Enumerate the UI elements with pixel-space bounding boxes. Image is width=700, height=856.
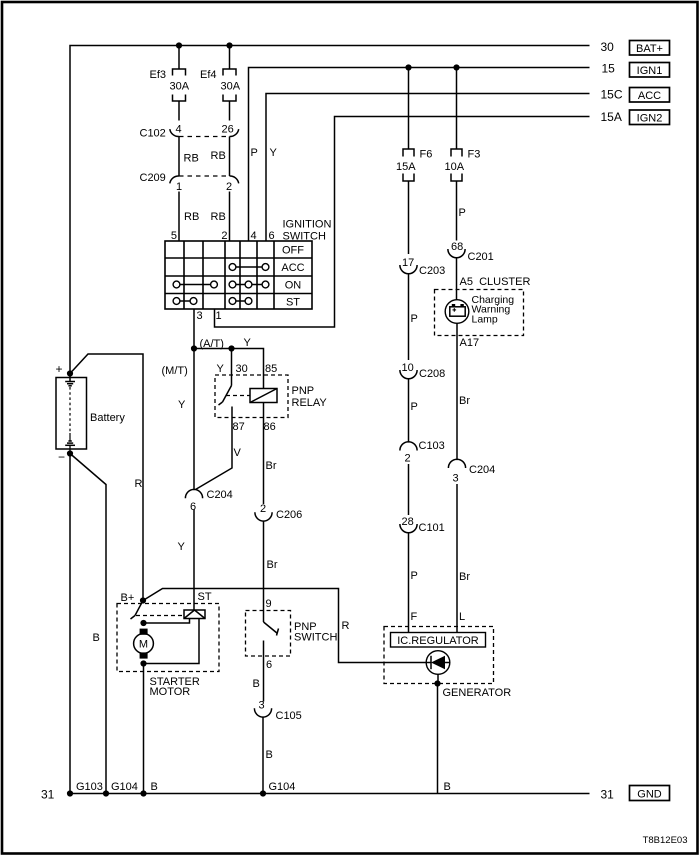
svg-text:R: R	[342, 620, 350, 632]
wire M/T Y down to C204	[193, 349, 195, 490]
svg-text:IC.REGULATOR: IC.REGULATOR	[397, 635, 479, 647]
junction dot battery ground	[67, 790, 73, 796]
svg-text:GENERATOR: GENERATOR	[443, 687, 512, 699]
svg-text:Ef4: Ef4	[200, 69, 217, 81]
svg-text:6: 6	[190, 501, 196, 513]
wire BAT+ to fuse Ef4	[229, 46, 231, 70]
junction dot pnp ground	[260, 790, 266, 796]
svg-text:G104: G104	[269, 781, 296, 793]
starter solenoid link dashes	[136, 615, 184, 617]
wire battery- straight ground	[69, 454, 71, 794]
ignition switch table grid	[165, 241, 312, 309]
junction dot starter ground	[140, 790, 146, 796]
svg-text:OFF: OFF	[282, 245, 304, 257]
wire Y C204 to starter solenoid	[193, 510, 195, 611]
svg-text:IGN2: IGN2	[637, 113, 663, 125]
svg-text:RB: RB	[184, 211, 199, 223]
terminal box BAT+	[630, 41, 670, 56]
svg-text:2: 2	[260, 503, 266, 515]
connector C209 mating dashes	[179, 175, 230, 177]
svg-text:C203: C203	[419, 265, 445, 277]
svg-text:30: 30	[601, 40, 615, 54]
svg-text:(M/T): (M/T)	[162, 365, 188, 377]
wire bus 31 GND	[70, 793, 590, 795]
svg-text:C105: C105	[276, 710, 302, 722]
svg-text:4: 4	[176, 124, 182, 136]
wire F6 to C203	[408, 181, 410, 254]
wire RB C209-2 to switch pin2	[229, 192, 231, 242]
svg-text:(A/T): (A/T)	[200, 338, 224, 350]
wire diode to generator node	[437, 674, 439, 683]
svg-text:5: 5	[171, 230, 177, 242]
svg-text:2: 2	[221, 230, 227, 242]
svg-text:SWITCH: SWITCH	[283, 231, 326, 243]
svg-text:3: 3	[197, 310, 203, 322]
svg-text:RB: RB	[211, 150, 226, 162]
svg-text:PNP: PNP	[292, 385, 315, 397]
wire relay pin30	[231, 349, 233, 386]
svg-text:C208: C208	[419, 368, 445, 380]
svg-text:ACC: ACC	[638, 90, 661, 102]
connector C209 pin 1 half	[170, 176, 179, 183]
junction dot motor bottom	[140, 660, 146, 666]
battery cell dashes	[69, 387, 71, 433]
starter solenoid coil	[184, 610, 205, 619]
svg-text:Y: Y	[178, 541, 186, 553]
wire P C208 to C103	[408, 379, 410, 441]
wire Br C206 to PNP switch	[263, 522, 265, 611]
battery minus terminal	[67, 450, 73, 456]
svg-text:10A: 10A	[445, 161, 465, 173]
switch contacts ST row	[173, 298, 180, 305]
svg-text:IGN1: IGN1	[637, 65, 663, 77]
svg-text:C102: C102	[140, 128, 166, 140]
svg-text:C206: C206	[276, 509, 302, 521]
svg-text:R: R	[135, 478, 143, 490]
svg-text:Y: Y	[178, 399, 186, 411]
wire battery- branch B ground	[70, 454, 106, 794]
svg-text:1: 1	[176, 181, 182, 193]
svg-text:ON: ON	[285, 280, 302, 292]
svg-text:P: P	[411, 570, 418, 582]
wire fuse Ef4 to C102 pin26	[229, 101, 231, 121]
svg-text:C204: C204	[469, 464, 495, 476]
svg-text:A5 CLUSTER: A5 CLUSTER	[460, 276, 531, 288]
relay PNP dashed box	[215, 375, 288, 418]
wire relay pin87 V to C204	[196, 407, 233, 490]
connector C209 pin 2 half	[230, 176, 239, 183]
svg-text:3: 3	[259, 700, 265, 712]
svg-text:28: 28	[402, 516, 414, 528]
svg-text:3: 3	[453, 473, 459, 485]
svg-text:30A: 30A	[221, 81, 241, 93]
junction dot F6 tap	[405, 64, 411, 70]
svg-text:Y: Y	[270, 147, 278, 159]
fuse Ef3 30A	[173, 69, 186, 76]
svg-text:10: 10	[402, 362, 414, 374]
svg-text:9: 9	[266, 598, 272, 610]
wire solenoid to motor bottom	[144, 619, 200, 664]
svg-text:−: −	[58, 450, 65, 464]
generator diode	[426, 651, 450, 675]
wire bus 15C ACC with left drop to switch pin6	[266, 94, 590, 242]
svg-text:Br: Br	[459, 571, 470, 583]
wire B C105 to ground	[262, 718, 264, 794]
pnp switch dashed box	[246, 611, 291, 657]
starter motor dashed box	[117, 604, 219, 672]
svg-text:BAT+: BAT+	[636, 43, 663, 55]
junction dot generator	[434, 680, 440, 686]
battery plates bottom	[68, 440, 71, 442]
connector C102 pin 26 half	[230, 129, 239, 136]
svg-text:RELAY: RELAY	[292, 397, 328, 409]
terminal box IGN2	[630, 110, 670, 125]
wire generator ground B	[437, 684, 439, 794]
wire fuse Ef3 to C102 pin4	[178, 101, 180, 121]
relay link dashes	[226, 395, 250, 397]
wire 15 bus to fuse F3	[456, 68, 458, 150]
wire relay pin86 Br to C206	[263, 403, 265, 505]
regulator label box	[391, 633, 486, 648]
svg-text:ST: ST	[198, 591, 212, 603]
regulator dashed box	[384, 627, 494, 684]
junction dot relay branch	[228, 345, 234, 351]
relay contact blade	[223, 386, 232, 403]
svg-text:B: B	[266, 749, 273, 761]
svg-text:ACC: ACC	[281, 262, 304, 274]
connector C102 pin 4 half	[170, 129, 179, 136]
svg-text:Br: Br	[459, 395, 470, 407]
terminal box ACC	[630, 88, 670, 103]
svg-text:31: 31	[601, 788, 615, 802]
svg-text:MOTOR: MOTOR	[150, 686, 191, 698]
svg-text:B: B	[253, 678, 260, 690]
wire C201 to cluster lamp	[456, 258, 458, 300]
svg-text:RB: RB	[184, 153, 199, 165]
junction dot A/T	[191, 345, 197, 351]
wire bus 15 IGN1 with left drop to switch pin4	[249, 68, 590, 242]
svg-text:2: 2	[405, 453, 411, 465]
svg-text:B: B	[151, 781, 158, 793]
svg-text:15: 15	[602, 62, 616, 76]
wire Br L C204 to regulator	[456, 484, 458, 633]
svg-text:Y: Y	[217, 363, 225, 375]
svg-text:86: 86	[264, 421, 276, 433]
svg-text:Y: Y	[244, 337, 252, 349]
svg-text:F6: F6	[420, 149, 433, 161]
svg-text:B: B	[444, 781, 451, 793]
svg-text:26: 26	[222, 124, 234, 136]
wire P F C101 to regulator	[408, 533, 410, 632]
wire battery+ to R riser	[70, 354, 143, 601]
junction dot B ground	[103, 790, 109, 796]
svg-text:Lamp: Lamp	[472, 313, 498, 325]
svg-text:68: 68	[451, 241, 463, 253]
svg-text:Battery: Battery	[90, 412, 125, 424]
svg-text:15C: 15C	[601, 88, 623, 102]
connector C204 right	[448, 459, 465, 468]
svg-text:C204: C204	[207, 489, 233, 501]
svg-text:F3: F3	[468, 149, 481, 161]
wire Y horizontal A/T	[194, 349, 264, 389]
terminal box GND	[630, 786, 670, 801]
svg-text:B: B	[93, 632, 100, 644]
svg-text:C209: C209	[140, 172, 166, 184]
svg-text:SWITCH: SWITCH	[294, 632, 337, 644]
wire 15 bus to fuse F6	[408, 68, 410, 150]
svg-text:17: 17	[402, 257, 414, 269]
svg-text:Ef3: Ef3	[150, 69, 167, 81]
wire bus 30 BAT+ with left drop to battery	[70, 46, 590, 374]
svg-text:85: 85	[265, 363, 277, 375]
charging warning lamp	[445, 300, 469, 324]
svg-text:T8B12E03: T8B12E03	[643, 835, 688, 846]
svg-text:30: 30	[236, 363, 248, 375]
svg-text:15A: 15A	[396, 161, 416, 173]
switch contacts ACC row	[229, 264, 236, 271]
fuse F6 15A	[403, 149, 414, 157]
svg-text:30A: 30A	[170, 81, 190, 93]
starter contact blade	[135, 601, 143, 616]
wire C103 to C101	[408, 464, 410, 515]
switch contacts ON row	[173, 281, 180, 288]
svg-text:ST: ST	[286, 297, 300, 309]
svg-text:6: 6	[266, 659, 272, 671]
svg-text:P: P	[459, 207, 466, 219]
svg-text:P: P	[411, 401, 418, 413]
svg-text:IGNITION: IGNITION	[283, 219, 332, 231]
junction dot Ef3 tap	[176, 42, 182, 48]
cluster dashed box	[435, 290, 524, 336]
svg-text:2: 2	[226, 181, 232, 193]
svg-text:31: 31	[41, 788, 55, 802]
svg-text:F: F	[411, 611, 418, 623]
wire F3 to C201	[456, 181, 458, 241]
wire P C203 to C208	[408, 274, 410, 360]
svg-text:A17: A17	[460, 337, 480, 349]
svg-text:Br: Br	[266, 460, 277, 472]
junction dot B+	[140, 597, 146, 603]
svg-text:GND: GND	[637, 789, 662, 801]
wire bus 15A IGN2 with riser to switch pin1	[215, 117, 590, 328]
svg-text:6: 6	[269, 230, 275, 242]
connector C102 mating dashes	[179, 136, 230, 138]
battery plates top	[65, 381, 75, 383]
svg-text:87: 87	[233, 421, 245, 433]
battery box	[56, 378, 87, 450]
svg-text:G104: G104	[111, 781, 138, 793]
svg-text:RB: RB	[211, 211, 226, 223]
svg-text:P: P	[411, 313, 418, 325]
svg-text:L: L	[459, 611, 465, 623]
wire lamp to A17	[456, 323, 458, 459]
svg-text:15A: 15A	[601, 110, 622, 124]
wire motor ground B	[143, 664, 145, 794]
svg-text:M: M	[139, 639, 148, 651]
pnp switch contact	[263, 611, 265, 623]
wire RB C102-26 to C209-2	[229, 137, 231, 177]
svg-text:4: 4	[251, 230, 257, 242]
svg-text:B+: B+	[121, 592, 135, 604]
wire RB C102-4 to C209-1	[178, 137, 180, 177]
relay coil	[250, 389, 277, 403]
svg-text:Br: Br	[267, 559, 278, 571]
wire RB C209-1 to switch pin5	[178, 192, 180, 242]
battery plus terminal	[67, 370, 73, 376]
connector C103	[400, 442, 417, 451]
wire BAT+ to fuse Ef3	[178, 46, 180, 70]
junction dot F3 tap	[453, 64, 459, 70]
svg-text:+: +	[56, 362, 63, 376]
motor M	[140, 629, 148, 635]
fuse F3 10A	[451, 149, 462, 157]
svg-text:V: V	[234, 447, 242, 459]
svg-text:C101: C101	[419, 522, 445, 534]
wire switch pin3 down	[193, 309, 195, 349]
svg-text:P: P	[251, 147, 258, 159]
pnp switch lower pin	[263, 641, 265, 702]
svg-text:C103: C103	[419, 440, 445, 452]
svg-text:1: 1	[216, 310, 222, 322]
wire B+ to ST horizontal	[143, 589, 426, 663]
terminal box IGN1	[630, 63, 670, 78]
junction dot starter contact	[140, 620, 146, 626]
junction dot Ef4 tap	[226, 42, 232, 48]
fuse Ef4 30A	[223, 69, 236, 76]
svg-text:C201: C201	[468, 251, 494, 263]
wire contact to solenoid	[144, 619, 190, 624]
svg-text:G103: G103	[76, 781, 103, 793]
connector C204 left	[185, 489, 202, 498]
